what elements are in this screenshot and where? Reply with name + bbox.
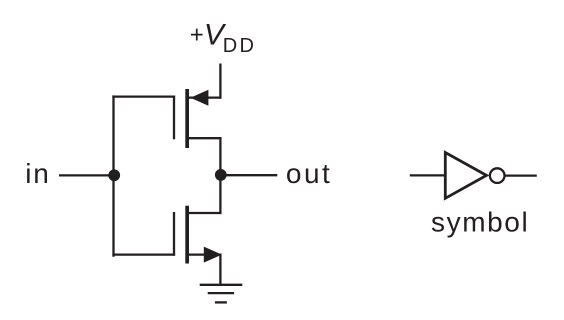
wire PMOS drain to output node [219,137,221,176]
transistor Q1 PMOS [174,89,222,148]
wire output node to NMOS drain [219,174,221,214]
wire out lead [221,174,277,176]
junction input node [108,169,120,181]
wire PMOS gate lead [112,95,175,97]
wire input bus vertical [112,95,114,256]
svg-text:symbol: symbol [431,206,529,237]
inverter U1 triangle [445,153,486,199]
svg-text:out: out [286,158,332,189]
wire symbol input lead [410,174,445,176]
wire in lead [59,174,111,176]
wire symbol output lead [506,174,537,176]
wire VDD lead [219,64,221,99]
inverter U1 bubble [490,168,505,183]
svg-text:in: in [25,158,51,189]
ground symbol [200,285,243,303]
junction output node [215,169,227,181]
wire NMOS source to ground [219,255,221,285]
wire NMOS gate lead [112,253,175,255]
transistor Q2 NMOS [174,206,222,264]
